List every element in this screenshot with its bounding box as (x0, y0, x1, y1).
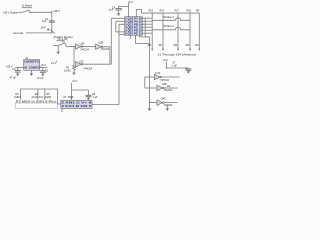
svg-text:P15: P15 (187, 10, 192, 13)
svg-text:10 kΩ: 10 kΩ (64, 70, 71, 73)
svg-text:220: 220 (45, 96, 53, 99)
svg-text:74AC04: 74AC04 (164, 89, 173, 92)
svg-text:74AC04: 74AC04 (80, 48, 89, 51)
svg-text:74AC04: 74AC04 (100, 48, 109, 51)
svg-text:U4C: U4C (161, 98, 166, 101)
svg-text:1N914: 1N914 (14, 96, 21, 99)
svg-text:P17: P17 (175, 10, 180, 13)
svg-text:4N35: 4N35 (68, 96, 74, 99)
svg-text:J30: J30 (147, 44, 152, 47)
svg-text:3 CA1 B GN 5: 3 CA1 B GN 5 (61, 104, 92, 108)
svg-text:47 µF: 47 µF (10, 77, 17, 80)
svg-text:Ground: Ground (13, 31, 23, 35)
svg-text:.1 µF: .1 µF (108, 9, 114, 12)
svg-text:74AC04: 74AC04 (83, 68, 92, 71)
svg-text:J34: J34 (195, 44, 200, 47)
svg-text:LM340T-5: LM340T-5 (24, 60, 40, 64)
svg-text:.28 V: .28 V (40, 26, 46, 29)
svg-text:U2A: U2A (80, 43, 85, 46)
svg-text:+5 V: +5 V (51, 61, 57, 65)
svg-text:P16: P16 (149, 10, 154, 13)
svg-text:.47 µF: .47 µF (36, 77, 43, 80)
svg-text:+28 V Supply: +28 V Supply (3, 10, 18, 14)
svg-text:P14: P14 (160, 10, 165, 13)
svg-text:U2B: U2B (98, 42, 103, 45)
svg-text:.1 µF: .1 µF (171, 65, 177, 68)
svg-text:J32: J32 (173, 44, 178, 47)
svg-text:J31: J31 (158, 44, 163, 47)
svg-text:74HC04: 74HC04 (160, 79, 170, 82)
svg-text:U2C: U2C (79, 60, 84, 63)
svg-text:6 QF1 PE 11: 6 QF1 PE 11 (125, 31, 142, 35)
svg-text:J1 Through J34 (Arduino): J1 Through J34 (Arduino) (158, 53, 197, 57)
svg-text:IN: IN (24, 65, 27, 69)
svg-text:10 kΩ 1%: 10 kΩ 1% (31, 96, 43, 99)
svg-text:2 AN1 C V+ 8: 2 AN1 C V+ 8 (61, 101, 92, 105)
svg-text:Strobe 1: Strobe 1 (163, 15, 174, 19)
svg-text:U4A: U4A (156, 72, 161, 75)
svg-text:J33: J33 (185, 44, 190, 47)
svg-text:Strobe 2: Strobe 2 (163, 24, 174, 28)
svg-text:74AC04: 74AC04 (164, 104, 173, 107)
svg-text:+5 V: +5 V (163, 58, 169, 62)
svg-text:.1 µF: .1 µF (92, 96, 98, 99)
svg-text:P2 MIDI In (DIN 5-Pin): P2 MIDI In (DIN 5-Pin) (16, 100, 56, 104)
svg-text:S1 (Power): S1 (Power) (22, 3, 32, 7)
svg-text:+5 V: +5 V (41, 63, 47, 67)
svg-text:+28 V: +28 V (53, 9, 60, 13)
svg-text:+5 V: +5 V (72, 79, 78, 83)
svg-text:1 µF: 1 µF (42, 20, 47, 23)
